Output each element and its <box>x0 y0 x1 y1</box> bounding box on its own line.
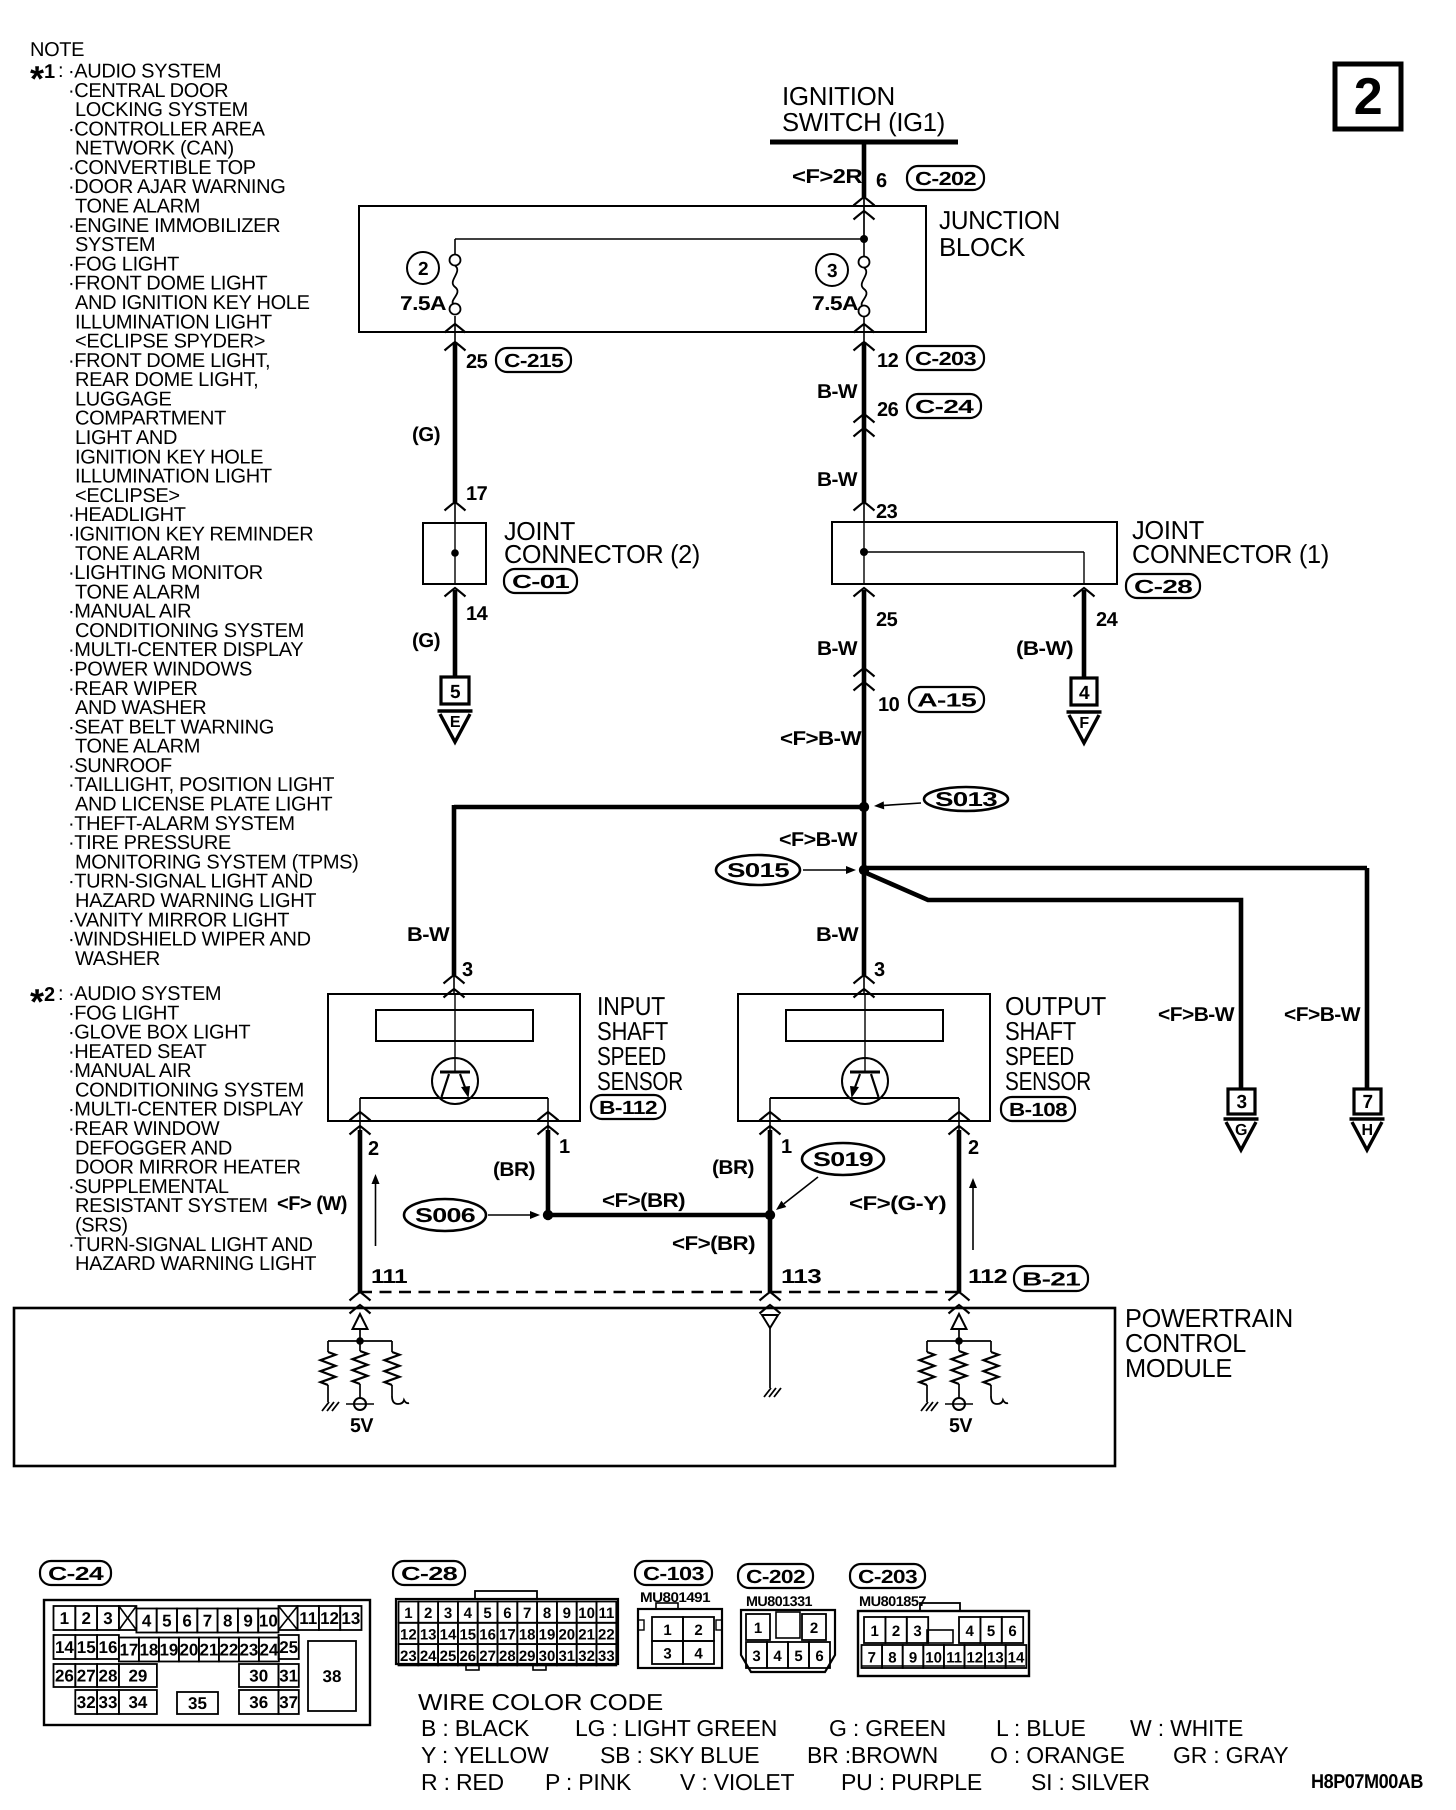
svg-text:4: 4 <box>464 1605 473 1622</box>
wire (BR) output pin1 to PCM 113 <box>768 1130 773 1292</box>
svg-text:21: 21 <box>578 1626 595 1643</box>
svg-text:14: 14 <box>440 1626 457 1643</box>
svg-text:11: 11 <box>598 1605 614 1622</box>
svg-text:(BR): (BR) <box>493 1159 535 1181</box>
svg-text:P : PINK: P : PINK <box>545 1769 632 1795</box>
svg-text:BR :BROWN: BR :BROWN <box>807 1742 938 1768</box>
connector C-202 <box>907 166 984 190</box>
svg-text:(BR): (BR) <box>712 1157 754 1179</box>
junction dot <box>356 1337 364 1345</box>
connector C-24 label <box>40 1561 111 1585</box>
svg-text:17: 17 <box>466 483 488 505</box>
svg-text:3: 3 <box>103 1609 112 1628</box>
wire S013 to S015 <box>862 807 867 870</box>
svg-text:5: 5 <box>162 1612 171 1631</box>
svg-text:3: 3 <box>444 1605 452 1622</box>
joint connector 1 internal link <box>864 551 1084 553</box>
svg-text:5V: 5V <box>350 1415 374 1437</box>
bus wire <box>927 1340 991 1342</box>
svg-text:25: 25 <box>279 1638 298 1657</box>
svg-text:3: 3 <box>874 959 885 981</box>
svg-text:<F>(BR): <F>(BR) <box>602 1190 685 1212</box>
svg-text:2: 2 <box>44 984 55 1006</box>
wire ignition to junction block <box>862 140 867 197</box>
wire <F>(W) input pin2 to PCM 111 <box>358 1130 363 1292</box>
svg-text::: : <box>58 983 63 1005</box>
svg-text:15: 15 <box>77 1638 96 1657</box>
svg-text:H8P07M00AB: H8P07M00AB <box>1311 1771 1423 1793</box>
svg-text:33: 33 <box>99 1693 118 1712</box>
svg-text:1: 1 <box>754 1620 762 1637</box>
svg-text:(G): (G) <box>412 630 440 652</box>
svg-text:11: 11 <box>946 1650 962 1667</box>
svg-text:B-W: B-W <box>817 381 858 403</box>
svg-text:L : BLUE: L : BLUE <box>996 1715 1086 1741</box>
svg-text:23: 23 <box>239 1641 258 1660</box>
svg-text:<F>B-W: <F>B-W <box>1158 1004 1235 1026</box>
fuse 2 tail <box>454 316 456 344</box>
connector C-103 label <box>635 1561 712 1585</box>
connector B-108 label <box>1001 1097 1075 1121</box>
svg-text:1: 1 <box>559 1136 570 1158</box>
chevron below joint connector 1 (pin 25) <box>854 588 875 597</box>
ground H <box>1350 1117 1385 1121</box>
ground pin box 3 <box>1228 1089 1255 1114</box>
svg-text:4: 4 <box>773 1648 782 1665</box>
svg-text:JUNCTION: JUNCTION <box>939 205 1060 235</box>
arrow to S006 <box>488 1214 530 1216</box>
svg-text:20: 20 <box>558 1626 575 1643</box>
connector C-01 label <box>504 569 577 593</box>
connector C-28 pinout <box>396 1599 618 1664</box>
svg-text:26: 26 <box>459 1648 476 1665</box>
svg-text:SB : SKY BLUE: SB : SKY BLUE <box>600 1742 759 1768</box>
svg-text:30: 30 <box>249 1667 268 1686</box>
svg-text:18: 18 <box>139 1641 158 1660</box>
connector C-215 <box>496 348 571 372</box>
svg-text:33: 33 <box>598 1648 615 1665</box>
connector C-203 pinout <box>858 1611 1029 1676</box>
svg-text:34: 34 <box>128 1693 147 1712</box>
svg-text:3: 3 <box>913 1623 921 1640</box>
svg-text:7: 7 <box>523 1605 531 1622</box>
svg-text:3: 3 <box>827 261 837 282</box>
connector chevrons C-202 <box>854 197 875 206</box>
svg-text:*: * <box>30 981 44 1022</box>
connector C-28 label <box>1126 574 1200 598</box>
svg-text:GR : GRAY: GR : GRAY <box>1173 1742 1288 1768</box>
svg-text:20: 20 <box>179 1641 198 1660</box>
svg-text:A-15: A-15 <box>917 691 977 712</box>
svg-text:S019: S019 <box>813 1149 873 1171</box>
svg-text:7.5A: 7.5A <box>400 293 446 315</box>
svg-text:C-215: C-215 <box>504 351 564 372</box>
svg-text:5: 5 <box>450 682 461 703</box>
svg-text:<F>2R: <F>2R <box>792 166 863 188</box>
connector C-28 label <box>393 1561 465 1585</box>
svg-text:29: 29 <box>519 1648 536 1665</box>
chevron into joint connector 2 <box>445 502 466 511</box>
output hook <box>991 1396 1008 1404</box>
output shaft speed sensor B-108 <box>738 994 990 1121</box>
svg-text:B-112: B-112 <box>599 1098 657 1119</box>
svg-text:24: 24 <box>1096 609 1119 631</box>
junction block box <box>359 206 926 332</box>
svg-text:2: 2 <box>694 1622 702 1639</box>
node: splice S015 <box>859 865 869 875</box>
svg-text:8: 8 <box>543 1605 551 1622</box>
svg-text:9: 9 <box>909 1650 917 1667</box>
wire (B-W) to ground F <box>1082 590 1087 678</box>
svg-text:27: 27 <box>479 1648 496 1665</box>
svg-text:5V: 5V <box>949 1415 973 1437</box>
svg-text:14: 14 <box>466 603 489 625</box>
svg-text:37: 37 <box>279 1693 298 1712</box>
svg-text:SI : SILVER: SI : SILVER <box>1031 1769 1150 1795</box>
svg-text:13: 13 <box>341 1609 360 1628</box>
PCM pin chevrons <box>350 1292 371 1301</box>
connector B-21 label <box>1014 1266 1088 1291</box>
svg-text::: : <box>58 60 63 82</box>
svg-text:S013: S013 <box>935 789 998 811</box>
svg-text:C-202: C-202 <box>915 169 976 190</box>
svg-text:<F> (W): <F> (W) <box>277 1193 347 1215</box>
svg-text:4: 4 <box>1079 683 1090 704</box>
wire S015 down to output sensor <box>862 870 867 975</box>
svg-text:6: 6 <box>815 1648 823 1665</box>
connector chevrons A-15 <box>854 668 875 677</box>
svg-text:22: 22 <box>598 1626 615 1643</box>
svg-text:1: 1 <box>871 1623 879 1640</box>
svg-text:<F>(G-Y): <F>(G-Y) <box>849 1193 946 1215</box>
svg-text:15: 15 <box>459 1626 476 1643</box>
pull-up resistor <box>952 1351 967 1384</box>
svg-text:WASHER: WASHER <box>75 948 160 970</box>
svg-text:13: 13 <box>420 1626 437 1643</box>
svg-text:G: G <box>1235 1122 1247 1139</box>
sensor pin chevrons (output pin 3) <box>854 975 875 984</box>
svg-text:31: 31 <box>279 1667 298 1686</box>
connector C-203 <box>907 346 984 370</box>
wire <F>(BR) S006 to S019 <box>548 1213 770 1218</box>
ground <box>322 1402 329 1411</box>
svg-text:2: 2 <box>968 1137 979 1159</box>
svg-text:38: 38 <box>323 1667 342 1686</box>
svg-text:MODULE: MODULE <box>1125 1353 1232 1383</box>
svg-text:B-21: B-21 <box>1022 1270 1081 1291</box>
svg-text:*: * <box>30 58 44 99</box>
svg-text:1: 1 <box>44 61 55 83</box>
svg-text:<F>B-W: <F>B-W <box>779 829 858 851</box>
svg-text:1: 1 <box>663 1622 671 1639</box>
svg-text:6: 6 <box>876 170 887 192</box>
svg-text:24: 24 <box>420 1648 437 1665</box>
svg-text:R : RED: R : RED <box>421 1769 504 1795</box>
svg-text:S015: S015 <box>727 860 790 882</box>
svg-text:B-108: B-108 <box>1009 1100 1067 1121</box>
svg-text:18: 18 <box>519 1626 536 1643</box>
svg-text:C-203: C-203 <box>858 1567 917 1588</box>
svg-text:113: 113 <box>781 1266 821 1288</box>
svg-text:(B-W): (B-W) <box>1016 638 1073 660</box>
svg-text:SENSOR: SENSOR <box>597 1066 683 1096</box>
svg-text:BLOCK: BLOCK <box>939 232 1026 262</box>
svg-text:C-24: C-24 <box>915 397 974 418</box>
svg-text:<F>(BR): <F>(BR) <box>672 1233 755 1255</box>
svg-text:C-28: C-28 <box>401 1564 457 1585</box>
svg-text:WIRE COLOR CODE: WIRE COLOR CODE <box>418 1689 663 1715</box>
joint connector (1) box C-28 <box>832 522 1117 584</box>
svg-text:6: 6 <box>182 1612 191 1631</box>
wire B-W junction block to joint connector 1 <box>862 342 867 502</box>
svg-text:25: 25 <box>440 1648 457 1665</box>
node: splice S019 <box>765 1210 775 1220</box>
connector chevrons C-215 <box>445 324 466 333</box>
svg-text:14: 14 <box>1008 1650 1025 1667</box>
input buffer triangle (pin group 360) <box>353 1314 368 1329</box>
flow arrow (right) <box>972 1188 974 1250</box>
connector chevrons C-203 <box>854 324 875 333</box>
wire (G) to ground E <box>453 590 458 677</box>
chevron below joint connector 1 (pin 24) <box>1074 588 1095 597</box>
svg-text:1: 1 <box>404 1605 412 1622</box>
svg-text:35: 35 <box>188 1694 207 1713</box>
PCM connector dashed boundary <box>360 1291 959 1293</box>
svg-text:2: 2 <box>1354 68 1382 126</box>
node: joint connector 1 dot <box>860 548 868 556</box>
svg-text:CONNECTOR (1): CONNECTOR (1) <box>1132 539 1329 569</box>
joint connector (2) box C-01 <box>423 523 486 584</box>
svg-text:2: 2 <box>810 1620 818 1637</box>
svg-text:4: 4 <box>694 1646 703 1663</box>
svg-text:C-28: C-28 <box>1134 577 1192 598</box>
svg-text:8: 8 <box>888 1650 896 1667</box>
svg-text:B-W: B-W <box>817 638 858 660</box>
svg-text:5: 5 <box>483 1605 491 1622</box>
svg-text:10: 10 <box>878 694 900 716</box>
pull-down resistor <box>321 1352 336 1385</box>
node: splice S013 <box>859 802 869 812</box>
svg-text:10: 10 <box>578 1605 595 1622</box>
page number box 2 <box>1335 64 1401 129</box>
svg-text:3: 3 <box>752 1648 760 1665</box>
bus wire <box>328 1340 392 1342</box>
svg-text:<F>B-W: <F>B-W <box>1284 1004 1361 1026</box>
svg-text:23: 23 <box>876 501 898 523</box>
connector C-202 pinout <box>741 1610 835 1672</box>
svg-text:2: 2 <box>424 1605 432 1622</box>
connector A-15 <box>909 687 984 712</box>
svg-text:MU801331: MU801331 <box>746 1593 813 1609</box>
svg-text:13: 13 <box>987 1650 1004 1667</box>
chevron into joint connector 1 <box>854 502 875 511</box>
svg-text:O : ORANGE: O : ORANGE <box>990 1742 1125 1768</box>
connector B-112 label <box>591 1095 665 1119</box>
svg-text:2: 2 <box>81 1609 90 1628</box>
svg-text:24: 24 <box>259 1641 278 1660</box>
svg-text:16: 16 <box>99 1638 118 1657</box>
wire S015 to right (to H) <box>862 866 1367 871</box>
svg-text:16: 16 <box>479 1626 496 1643</box>
svg-text:C-103: C-103 <box>643 1564 704 1585</box>
svg-text:E: E <box>450 714 461 731</box>
svg-text:11: 11 <box>299 1609 317 1628</box>
svg-text:26: 26 <box>877 399 899 421</box>
svg-text:C-24: C-24 <box>48 1564 104 1585</box>
ground pin box 4 <box>1071 678 1097 705</box>
svg-text:1: 1 <box>60 1609 69 1628</box>
input shaft speed sensor B-112 <box>328 994 580 1121</box>
svg-text:31: 31 <box>558 1648 575 1665</box>
junction dot <box>955 1337 963 1345</box>
svg-text:29: 29 <box>128 1667 147 1686</box>
connector C-202 label <box>738 1564 813 1588</box>
PCM ground circuit (pin 113) <box>762 1315 778 1328</box>
ground <box>764 1388 771 1397</box>
flow arrow (left) <box>375 1184 377 1246</box>
svg-text:27: 27 <box>77 1667 96 1686</box>
svg-text:HAZARD WARNING LIGHT: HAZARD WARNING LIGHT <box>75 1253 316 1275</box>
svg-text:10: 10 <box>259 1612 278 1631</box>
svg-text:23: 23 <box>400 1648 417 1665</box>
node: bus junction dot <box>860 235 868 243</box>
svg-text:30: 30 <box>539 1648 556 1665</box>
svg-text:3: 3 <box>663 1646 671 1663</box>
arrow to S019 <box>784 1177 818 1204</box>
svg-text:CONNECTOR (2): CONNECTOR (2) <box>504 539 700 569</box>
splice S015 label <box>716 855 800 885</box>
5V source circle <box>953 1398 965 1410</box>
arrow to S015 <box>803 869 846 871</box>
ground pin box 7 <box>1354 1089 1381 1114</box>
5V source circle <box>354 1398 366 1410</box>
fuse 3 (7.5A) <box>863 239 865 257</box>
svg-text:6: 6 <box>1008 1623 1016 1640</box>
fuse 2 circle label <box>407 252 439 284</box>
chevron below joint connector 2 <box>445 588 466 597</box>
svg-text:S006: S006 <box>415 1205 475 1227</box>
svg-text:25: 25 <box>876 609 898 631</box>
ground E <box>438 709 473 713</box>
ground pin box 5 <box>441 677 469 704</box>
pull-up resistor <box>353 1351 368 1384</box>
svg-text:12: 12 <box>320 1609 339 1628</box>
svg-text:B-W: B-W <box>816 924 859 946</box>
svg-text:(G): (G) <box>412 424 440 446</box>
wire (G) junction block to joint connector 2 <box>453 342 458 502</box>
svg-text:2: 2 <box>418 259 428 280</box>
svg-text:SWITCH (IG1): SWITCH (IG1) <box>782 107 945 137</box>
svg-text:3: 3 <box>462 959 473 981</box>
svg-text:9: 9 <box>243 1612 252 1631</box>
pull-down resistor <box>920 1352 935 1385</box>
wire <F>(G-Y) output pin2 to PCM 112 <box>957 1130 962 1292</box>
svg-text:W : WHITE: W : WHITE <box>1130 1715 1243 1741</box>
svg-text:B : BLACK: B : BLACK <box>421 1715 530 1741</box>
ground G <box>1224 1117 1259 1121</box>
svg-text:LG : LIGHT GREEN: LG : LIGHT GREEN <box>575 1715 777 1741</box>
svg-text:12: 12 <box>400 1626 417 1643</box>
svg-text:5: 5 <box>794 1648 802 1665</box>
svg-text:111: 111 <box>371 1266 407 1288</box>
svg-text:5: 5 <box>987 1623 995 1640</box>
fuse 3 tail <box>863 316 865 344</box>
connector C-24 pinout <box>44 1600 370 1725</box>
svg-text:19: 19 <box>539 1626 556 1643</box>
svg-text:17: 17 <box>119 1641 138 1660</box>
svg-text:<F>B-W: <F>B-W <box>780 728 862 750</box>
svg-text:28: 28 <box>99 1667 118 1686</box>
svg-text:3: 3 <box>1236 1092 1246 1113</box>
svg-text:B-W: B-W <box>817 469 858 491</box>
node: splice S006 <box>543 1210 553 1220</box>
output hook <box>392 1396 409 1404</box>
splice S006 label <box>404 1199 486 1231</box>
svg-text:22: 22 <box>219 1641 238 1660</box>
svg-text:V : VIOLET: V : VIOLET <box>680 1769 794 1795</box>
svg-text:12: 12 <box>877 350 899 372</box>
svg-text:7.5A: 7.5A <box>812 293 858 315</box>
connector chevrons C-24 <box>854 414 875 423</box>
wire B-W to splice S013 <box>862 590 867 807</box>
svg-text:1: 1 <box>781 1136 792 1158</box>
svg-text:2: 2 <box>368 1138 379 1160</box>
splice S019 label <box>802 1143 884 1175</box>
svg-text:32: 32 <box>578 1648 595 1665</box>
svg-text:C-202: C-202 <box>746 1567 805 1588</box>
fuse 3 circle label <box>816 254 848 286</box>
svg-text:MU801857: MU801857 <box>859 1593 927 1609</box>
ignition switch bus bar <box>770 140 958 145</box>
svg-text:H: H <box>1361 1122 1372 1139</box>
svg-text:25: 25 <box>466 351 488 373</box>
wire (BR) input pin1 to splice S006 <box>546 1130 551 1215</box>
svg-text:B-W: B-W <box>407 924 450 946</box>
svg-text:28: 28 <box>499 1648 516 1665</box>
powertrain control module box <box>14 1308 1115 1466</box>
svg-text:36: 36 <box>249 1693 268 1712</box>
svg-text:112: 112 <box>968 1266 1007 1288</box>
svg-text:21: 21 <box>199 1641 218 1660</box>
svg-text:8: 8 <box>223 1612 232 1631</box>
svg-text:14: 14 <box>55 1638 74 1657</box>
wire branch S013 to input sensor <box>454 805 866 810</box>
connector C-203 label <box>850 1564 925 1588</box>
series resistor <box>984 1352 999 1385</box>
wire S015 diagonal branch (to G) <box>864 872 1241 1089</box>
svg-text:26: 26 <box>55 1667 74 1686</box>
svg-text:7: 7 <box>868 1650 876 1667</box>
svg-text:C-203: C-203 <box>915 349 976 370</box>
svg-text:19: 19 <box>159 1641 178 1660</box>
svg-text:C-01: C-01 <box>512 572 570 593</box>
ground <box>921 1402 928 1411</box>
svg-text:Y : YELLOW: Y : YELLOW <box>421 1742 549 1768</box>
svg-text:G : GREEN: G : GREEN <box>829 1715 946 1741</box>
svg-text:7: 7 <box>203 1612 212 1631</box>
svg-text:17: 17 <box>499 1626 516 1643</box>
fuse 2 (7.5A) <box>450 255 461 266</box>
junction block internal bus <box>455 238 864 240</box>
connector C-103 pinout <box>638 1609 722 1668</box>
series resistor <box>385 1352 400 1385</box>
svg-text:7: 7 <box>1362 1092 1372 1113</box>
svg-text:12: 12 <box>966 1650 983 1667</box>
svg-text:10: 10 <box>925 1650 942 1667</box>
svg-text:32: 32 <box>77 1693 96 1712</box>
svg-text:2: 2 <box>892 1623 900 1640</box>
splice S013 label <box>924 787 1008 811</box>
